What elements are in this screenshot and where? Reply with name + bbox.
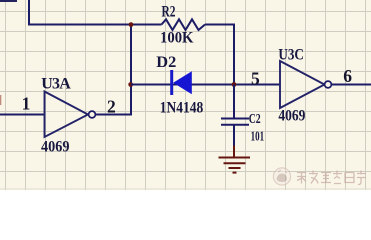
svg-text:101: 101 bbox=[251, 130, 265, 145]
wire: right vertical down to node 5 bbox=[233, 24, 235, 85]
wire clipped at left edge (red) bbox=[0, 95, 1, 105]
inverter gate U3A (4069) bbox=[45, 92, 96, 138]
junction capacitor tap bbox=[232, 82, 237, 87]
wire: top-left vertical from top edge down bbox=[28, 0, 30, 25]
capacitor C2 bbox=[221, 119, 249, 125]
svg-text:U3C: U3C bbox=[278, 47, 304, 64]
svg-text:U3A: U3A bbox=[41, 76, 71, 93]
svg-text:D2: D2 bbox=[156, 54, 176, 71]
wire: U3C output to right edge bbox=[331, 84, 371, 86]
svg-text:1N4148: 1N4148 bbox=[160, 100, 204, 117]
wire: feedback vertical at x=131 bbox=[130, 25, 132, 115]
wire: top horizontal from resistor to right corner bbox=[205, 24, 234, 26]
wire: diode row horizontal bbox=[131, 84, 280, 86]
wire stub clipped at top-left corner bbox=[0, 0, 17, 2]
watermark logo circle bbox=[273, 168, 290, 185]
wire: capacitor drop bbox=[233, 85, 235, 118]
junction diode row left bbox=[128, 82, 133, 87]
resistor R2 bbox=[162, 19, 206, 30]
svg-text:100K: 100K bbox=[160, 29, 194, 46]
svg-text:4069: 4069 bbox=[278, 108, 305, 125]
svg-text:4069: 4069 bbox=[41, 139, 70, 156]
watermark text (stylized CJK strokes) bbox=[297, 171, 366, 185]
svg-text:1: 1 bbox=[22, 93, 31, 113]
svg-text:C2: C2 bbox=[249, 112, 261, 127]
wire: capacitor to ground bbox=[233, 126, 235, 148]
svg-text:6: 6 bbox=[343, 66, 352, 86]
svg-text:R2: R2 bbox=[162, 4, 176, 21]
diode D2 bbox=[170, 70, 192, 95]
svg-text:5: 5 bbox=[251, 69, 260, 89]
ground bbox=[219, 146, 251, 173]
wire: input pin 1 bbox=[0, 114, 45, 116]
inverter gate U3C (4069) bbox=[280, 61, 331, 108]
svg-text:2: 2 bbox=[107, 96, 116, 116]
wire: top horizontal to resistor bbox=[28, 24, 162, 26]
junction top bbox=[129, 22, 134, 27]
wire: U3A output to feedback node bbox=[95, 114, 132, 116]
